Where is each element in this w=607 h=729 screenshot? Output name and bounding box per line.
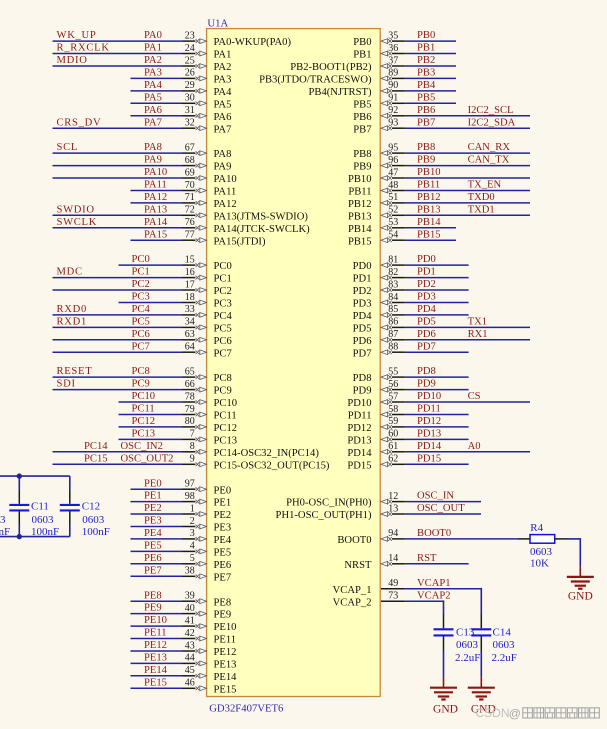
svg-text:I2C2_SDA: I2C2_SDA <box>468 117 516 128</box>
svg-text:49: 49 <box>388 578 398 589</box>
svg-text:PC3: PC3 <box>214 299 232 310</box>
pin PB2 number 37 with wire <box>290 55 456 73</box>
svg-text:PA10: PA10 <box>144 167 167 178</box>
svg-text:PC13: PC13 <box>214 436 238 447</box>
pin PE8 number 39 with wire <box>131 590 232 608</box>
svg-text:RX1: RX1 <box>468 329 488 340</box>
svg-text:PC12: PC12 <box>132 416 156 427</box>
svg-text:PA5: PA5 <box>144 92 162 103</box>
svg-text:8: 8 <box>190 441 195 452</box>
pin PE1 number 98 with wire <box>131 491 232 509</box>
pin PD12 number 59 with wire <box>347 416 468 434</box>
svg-text:46: 46 <box>185 678 195 689</box>
svg-text:7: 7 <box>190 429 195 440</box>
svg-text:OSC_IN: OSC_IN <box>417 491 454 502</box>
svg-text:76: 76 <box>185 217 195 228</box>
svg-text:51: 51 <box>388 192 398 203</box>
svg-text:C14: C14 <box>493 626 512 638</box>
svg-text:VCAP1: VCAP1 <box>417 578 451 589</box>
designator label R4 <box>530 522 543 534</box>
svg-text:65: 65 <box>185 366 195 377</box>
pin PC7 number 64 with wire <box>53 341 232 359</box>
svg-text:31: 31 <box>185 105 195 116</box>
svg-text:PE13: PE13 <box>144 653 167 664</box>
capacitor C13 <box>434 614 454 651</box>
svg-text:81: 81 <box>388 254 398 265</box>
junction dot bottom of C11 <box>17 534 22 539</box>
svg-text:PD9: PD9 <box>353 386 372 397</box>
svg-text:32: 32 <box>185 118 195 129</box>
value label cut off capacitor at left edge: 0603 tail <box>0 514 6 526</box>
svg-text:PA2: PA2 <box>214 62 232 73</box>
svg-text:42: 42 <box>185 628 195 639</box>
svg-text:PE8: PE8 <box>214 597 232 608</box>
svg-text:PE14: PE14 <box>144 665 168 676</box>
svg-text:PB15: PB15 <box>348 236 372 247</box>
svg-text:15: 15 <box>185 254 195 265</box>
svg-text:61: 61 <box>388 441 398 452</box>
svg-text:PE3: PE3 <box>144 516 162 527</box>
svg-text:PE2: PE2 <box>214 510 232 521</box>
svg-text:33: 33 <box>185 304 195 315</box>
wire VCAP_2 vertical to C13 <box>443 600 445 614</box>
pin PA2 number 25 with wire <box>53 55 232 73</box>
svg-text:OSC_OUT: OSC_OUT <box>417 503 465 514</box>
svg-text:70: 70 <box>185 180 195 191</box>
svg-text:PA4: PA4 <box>144 80 163 91</box>
pin PH1 number 13 with wire <box>276 503 481 521</box>
svg-text:PE3: PE3 <box>214 523 232 534</box>
pin PA6 number 31 with wire <box>131 105 232 123</box>
svg-text:PD10: PD10 <box>417 391 441 402</box>
svg-text:PB1: PB1 <box>417 43 435 54</box>
svg-text:PB11: PB11 <box>348 187 371 198</box>
svg-text:PE10: PE10 <box>214 622 237 633</box>
svg-text:36: 36 <box>388 43 398 54</box>
svg-text:56: 56 <box>388 379 398 390</box>
svg-text:69: 69 <box>185 167 195 178</box>
svg-text:PB12: PB12 <box>348 199 372 210</box>
svg-text:PC15: PC15 <box>84 453 108 464</box>
svg-text:PC12: PC12 <box>214 423 238 434</box>
svg-text:87: 87 <box>388 329 398 340</box>
pin PA8 number 67 with wire <box>53 142 232 160</box>
svg-text:PH1-OSC_OUT(PH1): PH1-OSC_OUT(PH1) <box>276 510 372 521</box>
value labels 0603 2.2uF of C13 <box>455 639 480 664</box>
pin PA5 number 30 with wire <box>131 92 232 110</box>
svg-text:PB14: PB14 <box>417 217 441 228</box>
svg-text:PC6: PC6 <box>214 336 232 347</box>
pin PC14 number 8 with wire <box>53 441 320 459</box>
svg-text:PB6: PB6 <box>353 112 371 123</box>
pin PB8 number 95 with wire <box>353 142 530 160</box>
designator label C12 <box>82 501 100 513</box>
svg-text:OSC_IN2: OSC_IN2 <box>121 441 163 452</box>
pin PB0 number 35 with wire <box>353 30 456 48</box>
svg-text:PE11: PE11 <box>214 635 237 646</box>
capacitor C11 <box>9 476 29 536</box>
svg-text:SWDIO: SWDIO <box>57 204 95 215</box>
capacitor C12 <box>60 476 80 536</box>
svg-text:14: 14 <box>388 553 398 564</box>
designator label C14 <box>493 626 512 638</box>
svg-text:PA2: PA2 <box>144 55 162 66</box>
svg-text:nF: nF <box>0 526 10 538</box>
svg-text:PD7: PD7 <box>353 348 372 359</box>
pin PB5 number 91 with wire <box>353 92 456 110</box>
svg-text:68: 68 <box>185 155 195 166</box>
pin PA15 number 77 with wire <box>131 229 266 247</box>
svg-text:PC5: PC5 <box>132 317 150 328</box>
pin VCAP_2 number 73 with wire <box>333 590 451 608</box>
svg-text:PE4: PE4 <box>144 528 162 539</box>
pin PC10 number 78 with wire <box>119 391 238 409</box>
svg-text:PE8: PE8 <box>144 590 162 601</box>
svg-text:CS: CS <box>468 391 481 402</box>
svg-text:PC10: PC10 <box>132 391 156 402</box>
pin PE4 number 3 with wire <box>131 528 232 546</box>
svg-text:CAN_TX: CAN_TX <box>468 155 510 166</box>
svg-text:PB2-BOOT1(PB2): PB2-BOOT1(PB2) <box>290 62 372 73</box>
pin PB14 number 53 with wire <box>348 217 456 235</box>
svg-text:GND: GND <box>568 591 593 603</box>
svg-text:0603: 0603 <box>456 639 479 651</box>
svg-text:TXD1: TXD1 <box>468 204 495 215</box>
svg-text:PC14-OSC32_IN(PC14): PC14-OSC32_IN(PC14) <box>214 448 320 459</box>
pin PD10 number 57 with wire <box>347 391 530 409</box>
pin PA3 number 26 with wire <box>131 68 232 86</box>
svg-text:91: 91 <box>388 93 398 104</box>
pin PC3 number 18 with wire <box>119 292 232 310</box>
svg-text:PD3: PD3 <box>353 299 372 310</box>
svg-text:PC1: PC1 <box>132 267 150 278</box>
svg-text:PC11: PC11 <box>214 411 237 422</box>
pin PA13 number 72 with wire <box>53 204 309 222</box>
svg-text:PD11: PD11 <box>348 411 372 422</box>
svg-text:OSC_OUT2: OSC_OUT2 <box>121 453 174 464</box>
svg-text:VCAP_2: VCAP_2 <box>333 597 372 608</box>
svg-text:PA8: PA8 <box>214 149 232 160</box>
svg-text:TX_EN: TX_EN <box>468 180 502 191</box>
svg-text:5: 5 <box>190 553 195 564</box>
svg-text:71: 71 <box>185 192 195 203</box>
pin PB12 number 51 with wire <box>348 192 530 210</box>
svg-text:PA13: PA13 <box>144 204 167 215</box>
svg-text:PC8: PC8 <box>214 373 232 384</box>
pin PC15 number 9 with wire <box>53 453 330 471</box>
pin PA1 number 24 with wire <box>53 43 232 61</box>
svg-text:57: 57 <box>388 391 398 402</box>
svg-text:PE9: PE9 <box>214 610 232 621</box>
pin PC8 number 65 with wire <box>53 366 232 384</box>
svg-text:PB10: PB10 <box>348 174 372 185</box>
svg-text:PB10: PB10 <box>417 167 441 178</box>
designator label C11 <box>31 501 49 513</box>
svg-text:PC0: PC0 <box>214 261 232 272</box>
svg-text:84: 84 <box>388 292 398 303</box>
svg-text:PD9: PD9 <box>417 379 436 390</box>
svg-text:PA6: PA6 <box>144 105 162 116</box>
junction dot top of C11 <box>17 473 22 478</box>
svg-text:TXD0: TXD0 <box>468 192 495 203</box>
pin PD4 number 85 with wire <box>353 304 469 322</box>
svg-text:10K: 10K <box>530 557 549 569</box>
pin PC11 number 79 with wire <box>119 404 237 422</box>
svg-text:PD3: PD3 <box>417 292 436 303</box>
svg-text:93: 93 <box>388 118 398 129</box>
designator label C13 <box>456 626 475 638</box>
ground symbol for R4 <box>567 566 594 602</box>
svg-text:9: 9 <box>190 454 195 465</box>
pin PB7 number 93 with wire <box>353 117 530 135</box>
svg-text:24: 24 <box>185 43 195 54</box>
svg-text:@: @ <box>509 707 521 721</box>
ground symbol under C13 <box>430 676 458 715</box>
pin PB10 number 47 with wire <box>348 167 530 185</box>
pin PD2 number 83 with wire <box>353 279 469 297</box>
pin NRST number 14 with wire <box>344 553 468 571</box>
svg-text:89: 89 <box>388 68 398 79</box>
pin PE3 number 2 with wire <box>131 516 232 534</box>
svg-text:53: 53 <box>388 217 398 228</box>
pin PC13 number 7 with wire <box>119 429 238 447</box>
svg-text:SDI: SDI <box>57 379 76 390</box>
svg-text:PA7: PA7 <box>214 124 232 135</box>
pin PE11 number 42 with wire <box>131 628 237 646</box>
svg-text:62: 62 <box>388 454 398 465</box>
IC U1A (GD32F407VET6) chip body <box>207 29 381 697</box>
svg-text:PA6: PA6 <box>214 112 232 123</box>
svg-text:PD0: PD0 <box>353 261 372 272</box>
pin PD3 number 84 with wire <box>353 292 469 310</box>
svg-text:SCL: SCL <box>57 142 79 153</box>
svg-text:PC2: PC2 <box>214 286 232 297</box>
svg-text:PD12: PD12 <box>417 416 441 427</box>
svg-text:PE5: PE5 <box>214 548 232 559</box>
svg-text:40: 40 <box>185 603 195 614</box>
svg-text:GD32F407VET6: GD32F407VET6 <box>209 703 284 715</box>
svg-text:PC10: PC10 <box>214 398 238 409</box>
svg-text:2.2uF: 2.2uF <box>455 652 480 664</box>
pin PE9 number 40 with wire <box>131 603 232 621</box>
svg-text:PA9: PA9 <box>144 155 162 166</box>
value label cut off capacitor at left edge: 100nF tail <box>0 526 10 538</box>
pin PA0 number 23 with wire <box>53 30 292 48</box>
svg-text:PA9: PA9 <box>214 162 232 173</box>
wire bottom rail of C11/C12 <box>0 536 70 538</box>
svg-text:13: 13 <box>388 503 398 514</box>
svg-text:PB9: PB9 <box>353 162 371 173</box>
svg-text:RXD1: RXD1 <box>57 317 87 328</box>
svg-text:PA11: PA11 <box>144 180 167 191</box>
svg-text:PE14: PE14 <box>214 672 238 683</box>
svg-text:PE0: PE0 <box>144 478 162 489</box>
svg-text:PC9: PC9 <box>214 386 232 397</box>
svg-text:2.2uF: 2.2uF <box>492 652 517 664</box>
svg-text:39: 39 <box>185 591 195 602</box>
svg-text:86: 86 <box>388 317 398 328</box>
svg-text:TX1: TX1 <box>468 317 487 328</box>
svg-text:PC0: PC0 <box>132 254 150 265</box>
svg-text:PC9: PC9 <box>132 379 150 390</box>
svg-text:41: 41 <box>185 615 195 626</box>
svg-text:RESET: RESET <box>57 366 93 377</box>
svg-text:PC11: PC11 <box>132 404 155 415</box>
svg-text:PE1: PE1 <box>144 491 162 502</box>
capacitor C14 <box>471 614 491 651</box>
svg-text:PD2: PD2 <box>417 279 436 290</box>
pin PA10 number 69 with wire <box>53 167 237 185</box>
svg-text:PA3: PA3 <box>214 75 232 86</box>
svg-text:PB14: PB14 <box>348 224 372 235</box>
svg-text:PA0: PA0 <box>144 30 162 41</box>
svg-text:97: 97 <box>185 479 195 490</box>
svg-text:78: 78 <box>185 391 195 402</box>
svg-text:16: 16 <box>185 267 195 278</box>
pin BOOT0 number 94 with wire <box>337 528 518 546</box>
svg-text:26: 26 <box>185 68 195 79</box>
svg-text:96: 96 <box>388 155 398 166</box>
svg-text:PC13: PC13 <box>132 429 156 440</box>
svg-text:PD6: PD6 <box>417 329 436 340</box>
svg-text:38: 38 <box>185 566 195 577</box>
svg-text:PA0-WKUP(PA0): PA0-WKUP(PA0) <box>214 37 292 48</box>
svg-text:PC14: PC14 <box>84 441 108 452</box>
svg-text:72: 72 <box>185 205 195 216</box>
svg-text:PB13: PB13 <box>417 204 441 215</box>
svg-text:0603: 0603 <box>82 514 105 526</box>
pin PB6 number 92 with wire <box>353 105 530 123</box>
pin PB11 number 48 with wire <box>348 180 530 198</box>
svg-text:PE15: PE15 <box>214 684 237 695</box>
wire top rail of C11/C12 <box>0 475 70 477</box>
pin PC6 number 63 with wire <box>53 329 232 347</box>
pin PD5 number 86 with wire <box>353 317 530 335</box>
wire VCAP_1 vertical to C14 <box>480 588 482 614</box>
value labels 0603 100nF of C12 <box>82 514 110 538</box>
ground symbol under C14 <box>468 676 496 715</box>
pin PD6 number 87 with wire <box>353 329 530 347</box>
svg-text:PD6: PD6 <box>353 336 372 347</box>
pin PD0 number 81 with wire <box>353 254 469 272</box>
svg-text:PD5: PD5 <box>353 324 372 335</box>
svg-text:CRS_DV: CRS_DV <box>57 117 102 128</box>
svg-text:RST: RST <box>417 553 437 564</box>
pin PA14 number 76 with wire <box>53 217 311 235</box>
svg-text:PD11: PD11 <box>417 404 441 415</box>
pin PC2 number 17 with wire <box>53 279 232 297</box>
pin PC9 number 66 with wire <box>53 379 232 397</box>
svg-text:PC4: PC4 <box>214 311 233 322</box>
pin PE14 number 45 with wire <box>131 665 238 683</box>
svg-text:66: 66 <box>185 379 195 390</box>
svg-text:18: 18 <box>185 292 195 303</box>
svg-text:PC7: PC7 <box>214 348 232 359</box>
svg-text:PC15-OSC32_OUT(PC15): PC15-OSC32_OUT(PC15) <box>214 460 330 471</box>
svg-text:GND: GND <box>433 704 458 716</box>
svg-text:PA15: PA15 <box>144 229 167 240</box>
svg-text:30: 30 <box>185 93 195 104</box>
svg-text:98: 98 <box>185 491 195 502</box>
svg-text:C12: C12 <box>82 501 100 513</box>
svg-text:MDIO: MDIO <box>57 55 88 66</box>
svg-text:PC3: PC3 <box>132 292 150 303</box>
svg-text:I2C2_SCL: I2C2_SCL <box>468 105 514 116</box>
pin PE0 number 97 with wire <box>131 478 232 496</box>
svg-text:77: 77 <box>185 230 195 241</box>
pin PB1 number 36 with wire <box>353 43 456 61</box>
svg-text:PB1: PB1 <box>353 50 371 61</box>
svg-text:2: 2 <box>190 516 195 527</box>
svg-text:PB0: PB0 <box>417 30 435 41</box>
wire from R4 to GND corner <box>569 538 581 566</box>
svg-text:45: 45 <box>185 665 195 676</box>
pin PD13 number 60 with wire <box>347 429 468 447</box>
svg-text:PA12: PA12 <box>144 192 167 203</box>
svg-text:PC5: PC5 <box>214 324 232 335</box>
svg-text:PB11: PB11 <box>417 180 440 191</box>
svg-text:PB4: PB4 <box>417 80 436 91</box>
svg-text:63: 63 <box>185 329 195 340</box>
wire C14 to ground <box>480 651 482 676</box>
svg-text:VCAP2: VCAP2 <box>417 590 451 601</box>
wire C13 to ground <box>443 651 445 676</box>
svg-text:PB12: PB12 <box>417 192 441 203</box>
svg-text:1: 1 <box>190 503 195 514</box>
svg-text:67: 67 <box>185 142 195 153</box>
svg-text:PA1: PA1 <box>144 43 162 54</box>
svg-text:PA10: PA10 <box>214 174 237 185</box>
svg-text:PA4: PA4 <box>214 87 233 98</box>
pin PE10 number 41 with wire <box>131 615 237 633</box>
svg-text:PH0-OSC_IN(PH0): PH0-OSC_IN(PH0) <box>286 498 372 509</box>
svg-text:0603: 0603 <box>32 514 55 526</box>
pin PE2 number 1 with wire <box>131 503 232 521</box>
svg-text:PA14: PA14 <box>144 217 168 228</box>
svg-text:PB8: PB8 <box>417 142 435 153</box>
svg-text:0603: 0603 <box>530 546 553 558</box>
pin PA7 number 32 with wire <box>53 117 232 135</box>
svg-text:52: 52 <box>388 205 398 216</box>
svg-text:58: 58 <box>388 404 398 415</box>
value label GD32F407VET6 <box>209 703 284 715</box>
svg-text:PE10: PE10 <box>144 615 167 626</box>
pin PH0 number 12 with wire <box>286 491 481 509</box>
pin PC5 number 34 with wire <box>53 317 232 335</box>
svg-text:12: 12 <box>388 491 398 502</box>
svg-text:SWCLK: SWCLK <box>57 217 98 228</box>
pin VCAP_1 number 49 with wire <box>333 578 482 596</box>
svg-text:PE11: PE11 <box>144 628 167 639</box>
svg-text:PD8: PD8 <box>353 373 372 384</box>
svg-text:100nF: 100nF <box>31 526 59 538</box>
svg-text:54: 54 <box>388 230 398 241</box>
svg-text:PD10: PD10 <box>347 398 371 409</box>
svg-text:PB0: PB0 <box>353 37 371 48</box>
svg-text:PD13: PD13 <box>347 436 371 447</box>
svg-text:3: 3 <box>190 528 195 539</box>
svg-text:PE5: PE5 <box>144 541 162 552</box>
svg-text:35: 35 <box>388 30 398 41</box>
svg-text:PC2: PC2 <box>132 279 150 290</box>
svg-text:95: 95 <box>388 142 398 153</box>
svg-text:PB4(NJTRST): PB4(NJTRST) <box>309 87 372 98</box>
svg-text:4: 4 <box>190 541 195 552</box>
svg-text:43: 43 <box>185 640 195 651</box>
pin PD11 number 58 with wire <box>348 404 469 422</box>
svg-text:PB13: PB13 <box>348 211 372 222</box>
pin PD15 number 62 with wire <box>347 453 468 471</box>
